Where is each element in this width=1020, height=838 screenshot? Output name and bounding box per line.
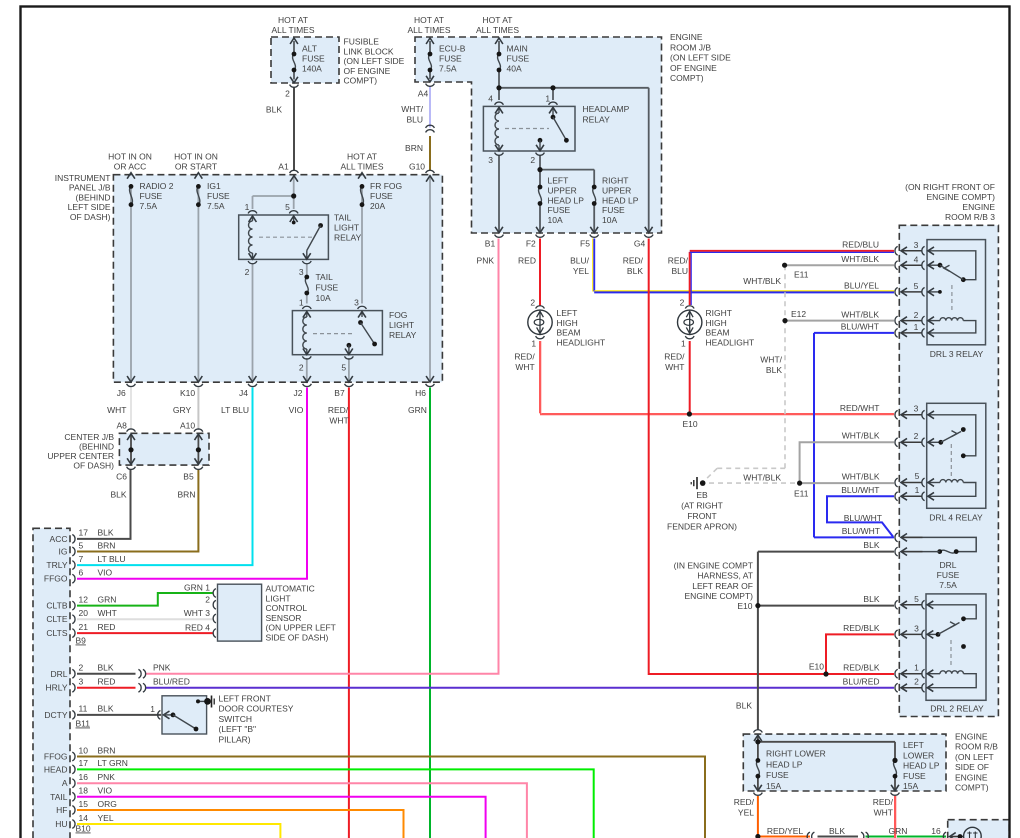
svg-text:HF: HF [56, 805, 67, 815]
svg-text:14: 14 [79, 813, 89, 823]
svg-text:WHT/BLK: WHT/BLK [841, 254, 879, 264]
svg-text:B1: B1 [485, 238, 496, 248]
svg-text:2: 2 [914, 310, 919, 320]
svg-text:ROOM R/B 3: ROOM R/B 3 [945, 212, 995, 222]
svg-text:5: 5 [341, 363, 346, 373]
svg-text:RADIO 2: RADIO 2 [140, 181, 174, 191]
svg-text:EB: EB [696, 490, 708, 500]
svg-text:RED/: RED/ [668, 255, 689, 265]
svg-text:COMPT): COMPT) [670, 73, 704, 83]
svg-text:E11: E11 [794, 489, 809, 499]
svg-text:7.5A: 7.5A [439, 64, 457, 74]
svg-text:K10: K10 [180, 388, 195, 398]
svg-text:H6: H6 [415, 388, 426, 398]
svg-text:1: 1 [299, 298, 304, 308]
svg-text:PANEL J/B: PANEL J/B [69, 183, 111, 193]
svg-text:ROOM R/B: ROOM R/B [955, 742, 998, 752]
svg-text:(LEFT "B": (LEFT "B" [219, 724, 257, 734]
svg-text:RED/: RED/ [623, 255, 644, 265]
svg-text:HOT AT: HOT AT [414, 15, 444, 25]
svg-text:YEL: YEL [738, 808, 754, 818]
svg-text:SENSOR: SENSOR [266, 613, 302, 623]
svg-text:18: 18 [79, 786, 89, 796]
svg-text:LEFT: LEFT [903, 740, 924, 750]
svg-text:HOT AT: HOT AT [483, 15, 513, 25]
svg-text:FUSE: FUSE [937, 570, 960, 580]
svg-text:2: 2 [530, 155, 535, 165]
svg-text:2: 2 [299, 363, 304, 373]
svg-text:RED/: RED/ [873, 797, 894, 807]
svg-text:BLU/RED: BLU/RED [153, 677, 190, 687]
svg-text:YEL: YEL [573, 266, 589, 276]
svg-text:2: 2 [285, 89, 290, 99]
svg-text:BLU/WHT: BLU/WHT [841, 485, 879, 495]
svg-text:RED/BLU: RED/BLU [842, 240, 879, 250]
svg-text:HOT AT: HOT AT [347, 152, 377, 162]
svg-text:10A: 10A [602, 215, 617, 225]
svg-text:20: 20 [79, 608, 89, 618]
svg-text:15A: 15A [766, 781, 781, 791]
svg-text:RED/YEL: RED/YEL [767, 826, 804, 836]
svg-text:RELAY: RELAY [583, 114, 611, 124]
svg-text:2: 2 [914, 677, 919, 687]
svg-text:HU: HU [55, 819, 67, 829]
svg-text:A4: A4 [418, 89, 429, 99]
svg-text:1: 1 [545, 94, 550, 104]
svg-text:OR START: OR START [175, 162, 217, 172]
svg-text:HEAD LP: HEAD LP [903, 761, 940, 771]
svg-text:BLK: BLK [627, 266, 643, 276]
svg-text:VIO: VIO [289, 405, 304, 415]
svg-text:PNK: PNK [477, 255, 495, 265]
svg-text:WHT/BLK: WHT/BLK [842, 431, 880, 441]
svg-text:OR ACC: OR ACC [114, 162, 147, 172]
svg-text:2: 2 [914, 431, 919, 441]
svg-text:WHT: WHT [665, 362, 684, 372]
svg-text:YEL: YEL [98, 813, 114, 823]
svg-text:FUSE: FUSE [207, 191, 230, 201]
svg-text:FOG: FOG [389, 310, 407, 320]
svg-text:SWITCH: SWITCH [219, 714, 253, 724]
svg-text:WHT/BLK: WHT/BLK [743, 276, 781, 286]
svg-text:FUSE: FUSE [766, 770, 789, 780]
svg-text:LOWER: LOWER [903, 750, 934, 760]
svg-text:RIGHT: RIGHT [602, 176, 628, 186]
svg-text:LEFT FRONT: LEFT FRONT [219, 694, 271, 704]
svg-text:LT BLU: LT BLU [98, 554, 126, 564]
svg-text:WHT/BLK: WHT/BLK [841, 309, 879, 319]
svg-text:WHT: WHT [107, 405, 126, 415]
svg-text:BLK: BLK [863, 540, 879, 550]
svg-text:FUSE: FUSE [316, 283, 339, 293]
svg-text:HOT IN ON: HOT IN ON [174, 152, 218, 162]
svg-text:BRN: BRN [98, 745, 116, 755]
svg-text:6: 6 [79, 568, 84, 578]
svg-text:3: 3 [914, 240, 919, 250]
svg-text:LT GRN: LT GRN [98, 758, 128, 768]
svg-text:LINK BLOCK: LINK BLOCK [344, 46, 394, 56]
svg-text:DOOR COURTESY: DOOR COURTESY [219, 704, 294, 714]
svg-text:ALT: ALT [302, 44, 317, 54]
svg-text:1: 1 [245, 202, 250, 212]
svg-text:11: 11 [79, 704, 88, 714]
svg-text:ENGINE: ENGINE [962, 202, 995, 212]
svg-text:7: 7 [79, 554, 84, 564]
svg-text:(IN ENGINE COMPT: (IN ENGINE COMPT [674, 561, 753, 571]
svg-text:DRL: DRL [939, 560, 956, 570]
svg-text:IG1: IG1 [207, 181, 221, 191]
svg-text:WHT: WHT [515, 362, 534, 372]
svg-text:RED/BLK: RED/BLK [843, 623, 880, 633]
svg-text:1: 1 [681, 339, 686, 349]
svg-text:3: 3 [299, 267, 304, 277]
svg-text:ENGINE COMPT): ENGINE COMPT) [685, 591, 754, 601]
svg-text:J4: J4 [239, 388, 248, 398]
svg-text:BLK: BLK [98, 663, 114, 673]
svg-text:J2: J2 [294, 388, 303, 398]
svg-text:4: 4 [488, 94, 493, 104]
svg-text:ALL TIMES: ALL TIMES [476, 25, 519, 35]
svg-text:FRONT: FRONT [687, 511, 716, 521]
svg-text:2: 2 [79, 663, 84, 673]
svg-text:140A: 140A [302, 64, 322, 74]
svg-text:RED/BLK: RED/BLK [843, 662, 880, 672]
svg-text:5: 5 [285, 202, 290, 212]
svg-text:E10: E10 [737, 601, 752, 611]
svg-text:E10: E10 [682, 419, 697, 429]
svg-text:GRN 1: GRN 1 [184, 583, 210, 593]
svg-text:RIGHT LOWER: RIGHT LOWER [766, 749, 826, 759]
svg-text:LIGHT: LIGHT [266, 593, 291, 603]
svg-text:OF ENGINE: OF ENGINE [344, 66, 391, 76]
svg-text:BLK: BLK [98, 528, 114, 538]
svg-text:ACC: ACC [50, 534, 68, 544]
svg-text:TAIL: TAIL [50, 792, 68, 802]
svg-text:WHT/: WHT/ [760, 355, 782, 365]
svg-text:16: 16 [931, 826, 941, 836]
svg-text:LEFT: LEFT [548, 176, 569, 186]
svg-text:GRN: GRN [408, 405, 427, 415]
svg-text:BRN: BRN [98, 540, 116, 550]
svg-text:2: 2 [245, 267, 250, 277]
svg-text:(ON RIGHT FRONT OF: (ON RIGHT FRONT OF [905, 182, 995, 192]
svg-text:RED 4: RED 4 [185, 623, 210, 633]
svg-text:MAIN: MAIN [507, 44, 528, 54]
svg-text:CLTS: CLTS [46, 628, 67, 638]
svg-text:FR FOG: FR FOG [370, 181, 402, 191]
svg-text:ECU-B: ECU-B [439, 44, 466, 54]
svg-text:BLU/WHT: BLU/WHT [844, 513, 882, 523]
svg-text:21: 21 [79, 622, 89, 632]
svg-text:3: 3 [914, 623, 919, 633]
svg-text:10A: 10A [316, 293, 331, 303]
svg-text:DRL 4 RELAY: DRL 4 RELAY [929, 513, 983, 523]
svg-text:DCTY: DCTY [44, 710, 67, 720]
svg-text:VIO: VIO [98, 568, 113, 578]
svg-text:3: 3 [79, 677, 84, 687]
svg-text:ALL TIMES: ALL TIMES [341, 162, 384, 172]
svg-text:FFGO: FFGO [44, 574, 68, 584]
svg-text:BLK: BLK [766, 365, 782, 375]
svg-text:LIGHT: LIGHT [334, 223, 359, 233]
svg-text:BLU/YEL: BLU/YEL [844, 281, 879, 291]
svg-text:HEADLIGHT: HEADLIGHT [557, 337, 606, 347]
svg-text:A10: A10 [180, 420, 195, 430]
svg-text:1: 1 [914, 663, 919, 673]
svg-text:ALL TIMES: ALL TIMES [272, 25, 315, 35]
svg-text:12: 12 [79, 594, 89, 604]
svg-text:(BEHIND: (BEHIND [76, 192, 111, 202]
svg-text:G4: G4 [634, 238, 646, 248]
svg-text:CLTB: CLTB [46, 601, 67, 611]
svg-text:BLK: BLK [110, 489, 126, 499]
svg-text:TRLY: TRLY [46, 560, 67, 570]
svg-text:B5: B5 [183, 471, 194, 481]
svg-text:RED: RED [98, 677, 116, 687]
svg-text:SIDE OF: SIDE OF [955, 762, 989, 772]
svg-text:10A: 10A [548, 215, 563, 225]
svg-text:BLU: BLU [406, 115, 423, 125]
svg-text:UPPER CENTER: UPPER CENTER [47, 451, 114, 461]
svg-text:A8: A8 [116, 420, 127, 430]
svg-text:RED/: RED/ [734, 797, 755, 807]
svg-text:3: 3 [914, 404, 919, 414]
svg-text:FFOG: FFOG [44, 752, 68, 762]
svg-text:5: 5 [79, 540, 84, 550]
svg-text:ENGINE: ENGINE [670, 32, 703, 42]
svg-text:LIGHT: LIGHT [389, 320, 414, 330]
svg-text:E11: E11 [794, 269, 809, 279]
svg-text:F2: F2 [526, 238, 536, 248]
svg-text:COMPT): COMPT) [344, 76, 378, 86]
svg-text:G10: G10 [409, 162, 425, 172]
svg-text:BLK: BLK [98, 704, 114, 714]
svg-text:40A: 40A [507, 64, 522, 74]
svg-text:7.5A: 7.5A [140, 201, 158, 211]
svg-text:(ON LEFT: (ON LEFT [955, 752, 994, 762]
svg-text:BLU/WHT: BLU/WHT [841, 322, 879, 332]
svg-text:4: 4 [914, 254, 919, 264]
svg-text:ENGINE: ENGINE [955, 732, 988, 742]
svg-text:FUSIBLE: FUSIBLE [344, 37, 380, 47]
svg-text:HOT IN ON: HOT IN ON [108, 152, 152, 162]
svg-text:BLK: BLK [829, 826, 845, 836]
svg-text:7.5A: 7.5A [939, 580, 957, 590]
svg-text:WHT 3: WHT 3 [184, 608, 211, 618]
svg-text:3: 3 [354, 298, 359, 308]
svg-text:WHT: WHT [329, 416, 348, 426]
svg-text:RED: RED [98, 622, 116, 632]
svg-text:E10: E10 [809, 662, 824, 672]
svg-text:1: 1 [915, 485, 920, 495]
svg-text:FUSE: FUSE [439, 54, 462, 64]
svg-text:RED: RED [518, 255, 536, 265]
svg-text:LT BLU: LT BLU [221, 405, 249, 415]
svg-text:10: 10 [79, 745, 89, 755]
svg-text:7.5A: 7.5A [207, 201, 225, 211]
svg-text:WHT/BLK: WHT/BLK [743, 473, 781, 483]
svg-text:RED/: RED/ [514, 352, 535, 362]
svg-text:HIGH: HIGH [706, 318, 727, 328]
svg-text:ALL TIMES: ALL TIMES [408, 25, 451, 35]
svg-text:RIGHT: RIGHT [706, 308, 732, 318]
svg-text:GRN: GRN [889, 826, 908, 836]
svg-text:(AT RIGHT: (AT RIGHT [681, 501, 723, 511]
svg-text:OF DASH): OF DASH) [73, 461, 114, 471]
svg-text:A1: A1 [278, 162, 289, 172]
svg-text:ENGINE: ENGINE [955, 772, 988, 782]
svg-text:BLK: BLK [736, 701, 752, 711]
svg-text:15A: 15A [903, 781, 918, 791]
svg-text:RED/: RED/ [664, 352, 685, 362]
svg-text:BLU/WHT: BLU/WHT [842, 526, 880, 536]
svg-text:CONTROL: CONTROL [266, 603, 308, 613]
svg-text:FUSE: FUSE [903, 771, 926, 781]
svg-text:HARNESS, AT: HARNESS, AT [697, 571, 753, 581]
svg-text:5: 5 [914, 281, 919, 291]
svg-text:FUSE: FUSE [548, 205, 571, 215]
svg-text:WHT: WHT [874, 808, 893, 818]
svg-text:ROOM J/B: ROOM J/B [670, 42, 711, 52]
svg-text:OF ENGINE: OF ENGINE [670, 63, 717, 73]
svg-text:(ON LEFT SIDE: (ON LEFT SIDE [344, 56, 405, 66]
svg-text:B11: B11 [76, 719, 91, 729]
svg-text:DRL 3 RELAY: DRL 3 RELAY [930, 349, 984, 359]
svg-text:HEAD LP: HEAD LP [548, 195, 585, 205]
svg-text:UPPER: UPPER [548, 185, 577, 195]
svg-text:BLU/RED: BLU/RED [843, 676, 880, 686]
svg-text:SIDE OF DASH): SIDE OF DASH) [266, 633, 329, 643]
svg-text:ENGINE COMPT): ENGINE COMPT) [927, 192, 996, 202]
svg-text:BLK: BLK [863, 594, 879, 604]
svg-text:BLU: BLU [671, 266, 688, 276]
svg-text:GRY: GRY [173, 405, 192, 415]
svg-text:HEADLAMP: HEADLAMP [583, 104, 630, 114]
svg-text:OF DASH): OF DASH) [70, 212, 111, 222]
svg-text:INSTRUMENT: INSTRUMENT [55, 173, 111, 183]
svg-text:B9: B9 [76, 636, 87, 646]
svg-text:BRN: BRN [178, 489, 196, 499]
svg-text:2: 2 [205, 594, 210, 604]
svg-text:B7: B7 [334, 388, 345, 398]
svg-text:HEADLIGHT: HEADLIGHT [706, 337, 755, 347]
svg-text:FUSE: FUSE [302, 54, 325, 64]
svg-text:(BEHIND: (BEHIND [79, 441, 114, 451]
svg-text:ORG: ORG [98, 799, 117, 809]
svg-text:COMPT): COMPT) [955, 783, 989, 793]
svg-text:E12: E12 [791, 309, 806, 319]
svg-text:RELAY: RELAY [334, 233, 362, 243]
svg-text:BEAM: BEAM [706, 328, 730, 338]
svg-text:PILLAR): PILLAR) [219, 734, 251, 744]
svg-text:15: 15 [79, 799, 89, 809]
svg-text:PNK: PNK [98, 772, 116, 782]
svg-text:DRL: DRL [50, 669, 67, 679]
svg-text:BEAM: BEAM [557, 328, 581, 338]
svg-text:LEFT: LEFT [557, 308, 578, 318]
svg-text:C6: C6 [116, 471, 127, 481]
svg-text:GRN: GRN [98, 594, 117, 604]
svg-text:HEAD LP: HEAD LP [602, 195, 639, 205]
svg-text:UPPER: UPPER [602, 185, 631, 195]
svg-text:IG: IG [59, 547, 68, 557]
svg-text:AUTOMATIC: AUTOMATIC [266, 584, 315, 594]
svg-text:TAIL: TAIL [316, 272, 334, 282]
svg-text:BLK: BLK [266, 105, 282, 115]
svg-text:RED/: RED/ [328, 405, 349, 415]
svg-text:F5: F5 [580, 238, 590, 248]
svg-text:LEFT REAR OF: LEFT REAR OF [692, 581, 753, 591]
svg-text:HIGH: HIGH [557, 318, 578, 328]
svg-text:RED/WHT: RED/WHT [840, 403, 880, 413]
svg-text:1: 1 [914, 322, 919, 332]
svg-text:CLTE: CLTE [46, 614, 67, 624]
svg-text:1: 1 [531, 339, 536, 349]
svg-text:(ON UPPER LEFT: (ON UPPER LEFT [266, 623, 336, 633]
svg-text:FUSE: FUSE [370, 191, 393, 201]
svg-text:16: 16 [79, 772, 89, 782]
svg-text:FUSE: FUSE [140, 191, 163, 201]
svg-text:VIO: VIO [98, 786, 113, 796]
svg-text:HEAD: HEAD [44, 764, 68, 774]
svg-text:TAIL: TAIL [334, 213, 352, 223]
svg-text:FENDER APRON): FENDER APRON) [667, 522, 737, 532]
svg-text:WHT: WHT [98, 608, 117, 618]
svg-text:17: 17 [79, 758, 89, 768]
svg-text:DRL 2 RELAY: DRL 2 RELAY [930, 704, 984, 714]
svg-text:20A: 20A [370, 201, 385, 211]
svg-text:FUSE: FUSE [602, 205, 625, 215]
svg-text:17: 17 [79, 528, 89, 538]
svg-text:RELAY: RELAY [389, 330, 417, 340]
svg-text:WHT/BLK: WHT/BLK [842, 472, 880, 482]
svg-text:B10: B10 [76, 824, 91, 834]
svg-text:LEFT SIDE: LEFT SIDE [68, 202, 111, 212]
svg-text:BRN: BRN [405, 143, 423, 153]
svg-text:HEAD LP: HEAD LP [766, 759, 803, 769]
svg-text:FUSE: FUSE [507, 54, 530, 64]
svg-text:PNK: PNK [153, 663, 171, 673]
svg-text:5: 5 [914, 594, 919, 604]
svg-text:BLU/: BLU/ [570, 255, 590, 265]
svg-text:HRLY: HRLY [45, 683, 67, 693]
svg-text:CENTER J/B: CENTER J/B [64, 432, 114, 442]
svg-text:3: 3 [488, 155, 493, 165]
svg-text:HOT AT: HOT AT [278, 15, 308, 25]
svg-text:5: 5 [915, 471, 920, 481]
svg-text:WHT/: WHT/ [401, 104, 423, 114]
svg-text:J6: J6 [117, 388, 126, 398]
svg-text:2: 2 [530, 297, 535, 307]
svg-text:A: A [62, 778, 68, 788]
svg-text:2: 2 [680, 297, 685, 307]
svg-text:(ON LEFT SIDE: (ON LEFT SIDE [670, 53, 731, 63]
svg-text:1: 1 [150, 704, 155, 714]
